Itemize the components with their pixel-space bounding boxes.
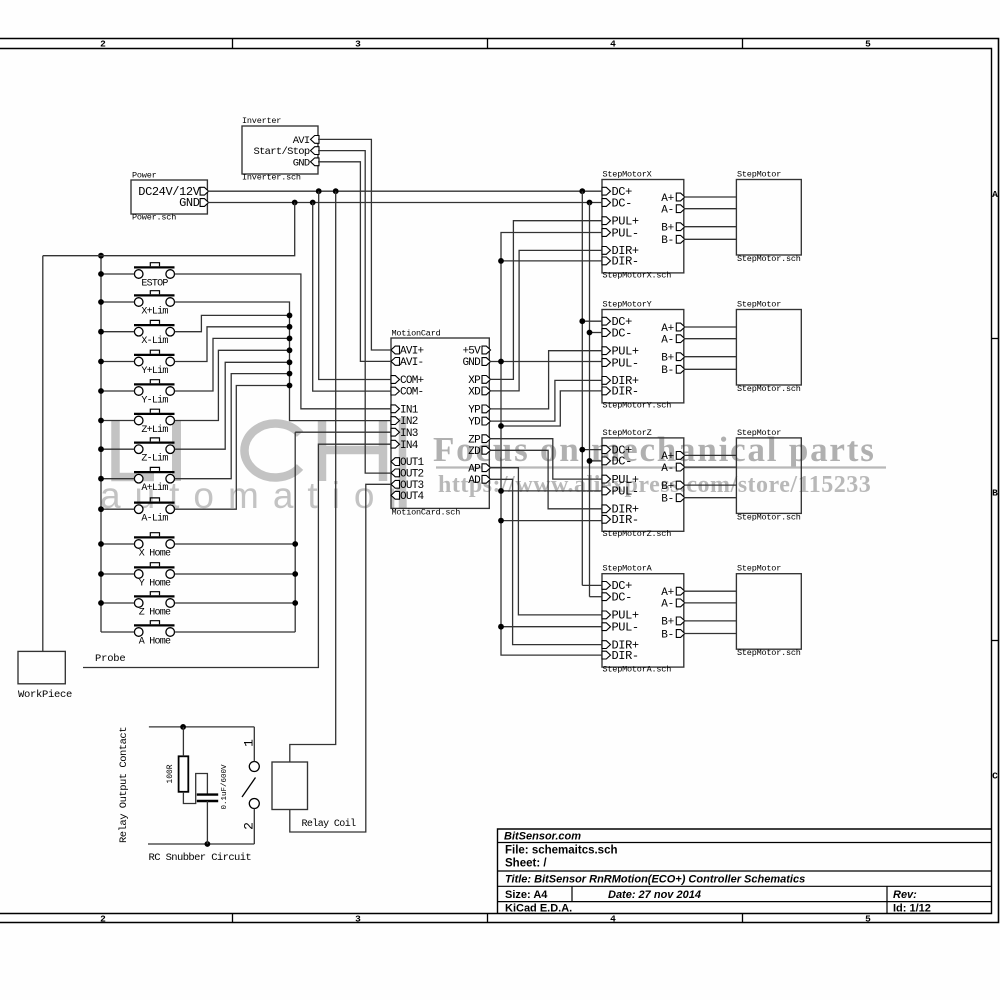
svg-text:A+: A+	[661, 451, 674, 463]
wire YD to Y DIR+	[489, 380, 602, 421]
svg-text:PUL-: PUL-	[612, 226, 639, 240]
svg-text:C: C	[992, 771, 998, 782]
svg-text:AP: AP	[468, 463, 481, 475]
switch A Home	[134, 624, 175, 626]
pin OUT4	[391, 491, 400, 499]
svg-text:Id: 1/12: Id: 1/12	[893, 903, 931, 915]
wire Y Home to home bus	[175, 573, 296, 575]
svg-text:+5V: +5V	[462, 346, 481, 358]
svg-text:DIR-: DIR-	[612, 513, 639, 527]
junction bus Z+Lim	[98, 418, 104, 424]
pin IN4	[391, 440, 400, 448]
svg-text:A+: A+	[661, 587, 674, 599]
svg-text:A Home: A Home	[139, 637, 171, 648]
switch Y-Lim	[134, 383, 175, 385]
junction	[579, 447, 585, 453]
pin A- X	[676, 205, 685, 213]
svg-text:StepMotorY: StepMotorY	[603, 300, 652, 310]
svg-text:OUT1: OUT1	[400, 457, 425, 469]
svg-text:A+: A+	[661, 193, 674, 205]
junction limit bus X-Lim	[287, 313, 293, 319]
svg-text:IN1: IN1	[400, 404, 419, 416]
pin AP	[482, 464, 491, 472]
wire to WorkPiece	[42, 256, 44, 652]
pin DIR- Z	[602, 515, 611, 523]
wire A A- to motor	[684, 602, 737, 604]
wire ZD to Z DIR+	[489, 450, 602, 509]
svg-text:B-: B-	[661, 494, 674, 506]
svg-text:DIR-: DIR-	[612, 255, 639, 269]
svg-text:Y Home: Y Home	[139, 579, 171, 590]
pin XP	[482, 376, 491, 384]
wire capacitor bottom lead	[206, 801, 208, 844]
svg-text:YD: YD	[468, 417, 481, 429]
pin DIR- X	[602, 257, 611, 265]
junction limit bus Z+Lim	[287, 347, 293, 353]
junction	[498, 518, 504, 524]
wire Z DIR- to common bus	[501, 520, 602, 522]
wire DC24V to relay coil	[290, 191, 336, 762]
svg-text:automation: automation	[100, 475, 423, 516]
pin PUL- Z	[602, 487, 611, 495]
svg-text:Z-Lim: Z-Lim	[141, 453, 168, 465]
junction bus Z Home	[98, 600, 104, 606]
svg-text:A-: A-	[661, 463, 674, 475]
svg-text:StepMotorZ: StepMotorZ	[603, 428, 652, 438]
wire bus to Z+Lim	[101, 420, 134, 422]
pin COM+	[391, 376, 400, 384]
wire Z A+ to motor	[684, 454, 737, 456]
svg-text:StepMotorZ.sch: StepMotorZ.sch	[603, 529, 672, 539]
wire Z A- to motor	[684, 466, 737, 468]
wire Y B+ to motor	[684, 356, 737, 358]
svg-text:AD: AD	[468, 475, 481, 487]
sheet StepMotorA	[602, 574, 684, 667]
svg-text:StepMotorA: StepMotorA	[603, 564, 653, 574]
wire DC- stub Z	[590, 460, 603, 462]
border tick bottom	[232, 914, 234, 923]
sheet StepMotor motor Z	[736, 438, 801, 514]
pin DIR+ A	[602, 641, 611, 649]
sheet StepMotor motor X	[736, 180, 801, 256]
svg-text:B: B	[992, 488, 998, 499]
svg-text:Title: BitSensor RnRMotion(ECO: Title: BitSensor RnRMotion(ECO+) Control…	[505, 873, 805, 885]
svg-text:Power.sch: Power.sch	[132, 213, 176, 223]
pin A+ X	[676, 193, 685, 201]
switch Z-Lim	[134, 442, 175, 444]
sheet StepMotorX	[602, 180, 684, 273]
pin COM-	[391, 387, 400, 395]
svg-text:XD: XD	[468, 387, 481, 399]
svg-text:A-: A-	[661, 599, 674, 611]
svg-text:StepMotor.sch: StepMotor.sch	[737, 384, 801, 394]
pin DC24V/12V	[200, 187, 209, 195]
svg-text:A+Lim: A+Lim	[141, 482, 168, 494]
junction	[498, 488, 504, 494]
pin YD	[482, 417, 491, 425]
wire X-Lim to limit bus	[175, 315, 290, 331]
pin DC+ Y	[602, 317, 611, 325]
svg-text:StepMotor: StepMotor	[737, 564, 781, 574]
svg-text:StepMotorA.sch: StepMotorA.sch	[603, 665, 672, 675]
wire A PUL- to common bus	[501, 626, 602, 628]
svg-text:ZD: ZD	[468, 446, 481, 458]
pin ZD	[482, 446, 491, 454]
junction limit bus A+Lim	[287, 371, 293, 377]
pin B- Z	[676, 494, 685, 502]
wire switch supply bus	[100, 256, 102, 632]
pin OUT2	[391, 469, 400, 477]
wire X DIR- to common bus	[501, 260, 602, 262]
wire contact bottom	[148, 843, 254, 845]
svg-text:StepMotor.sch: StepMotor.sch	[737, 512, 801, 522]
junction bus X+Lim	[98, 299, 104, 305]
wire AVI to AVI+	[318, 139, 391, 350]
title block row line 3	[498, 885, 992, 887]
junction resistor top	[180, 724, 186, 730]
pin A- Y	[676, 335, 685, 343]
wire AP to A PUL+	[489, 468, 602, 615]
svg-text:B-: B-	[661, 235, 674, 247]
wire resistor to capacitor	[183, 774, 207, 804]
wire DC+ stub Z	[582, 449, 602, 451]
svg-text:WorkPiece: WorkPiece	[18, 689, 72, 701]
svg-text:Relay Coil: Relay Coil	[302, 818, 357, 830]
wire DC- stub A	[590, 596, 603, 598]
border tick top	[742, 39, 744, 49]
svg-text:Start/Stop: Start/Stop	[253, 146, 309, 158]
junction home bus Y Home	[292, 571, 298, 577]
junction	[579, 188, 585, 194]
pin A+ A	[676, 587, 685, 595]
junction limit bus Y+Lim	[287, 324, 293, 330]
wire Y DIR- to common bus	[501, 391, 602, 426]
junction home bus Z Home	[292, 600, 298, 606]
wire bus to X+Lim	[101, 301, 134, 303]
svg-text:Probe: Probe	[95, 653, 126, 665]
svg-text:A-Lim: A-Lim	[141, 513, 168, 525]
wire bus to Y Home	[101, 573, 134, 575]
svg-text:Inverter: Inverter	[242, 116, 281, 126]
title block divider rev	[886, 886, 888, 914]
svg-text:StepMotor: StepMotor	[737, 170, 781, 180]
junction bus Y+Lim	[98, 359, 104, 365]
title block divider date	[571, 886, 573, 901]
svg-text:4: 4	[610, 39, 616, 50]
svg-text:File: schemaitcs.sch: File: schemaitcs.sch	[505, 845, 618, 857]
pin IN3	[391, 428, 400, 436]
svg-text:PUL-: PUL-	[612, 621, 639, 635]
pin DIR+ Z	[602, 505, 611, 513]
svg-text:2: 2	[100, 914, 106, 925]
junction bus Z-Lim	[98, 446, 104, 452]
svg-text:https://www.aliexpress.com/sto: https://www.aliexpress.com/store/115233	[438, 472, 871, 498]
svg-text:GND: GND	[293, 157, 310, 169]
svg-text:DIR-: DIR-	[612, 385, 639, 399]
wire Y B- to motor	[684, 368, 737, 370]
svg-text:5: 5	[865, 39, 871, 50]
svg-text:DC-: DC-	[612, 455, 632, 469]
wire bus to X Home	[101, 543, 134, 545]
svg-text:MotionCard.sch: MotionCard.sch	[392, 508, 461, 518]
switch X-Lim	[134, 324, 175, 326]
svg-text:Rev:: Rev:	[893, 889, 917, 901]
svg-text:StepMotorY.sch: StepMotorY.sch	[603, 401, 672, 411]
svg-text:Y+Lim: Y+Lim	[141, 365, 168, 377]
junction bus A-Lim	[98, 506, 104, 512]
svg-text:3: 3	[355, 914, 361, 925]
pin GND	[200, 199, 209, 207]
svg-text:StepMotor.sch: StepMotor.sch	[737, 254, 801, 264]
svg-text:Z Home: Z Home	[139, 608, 171, 619]
pin B+ X	[676, 223, 685, 231]
pin DIR+ Y	[602, 377, 611, 385]
pin PUL+ Y	[602, 347, 611, 355]
junction	[587, 458, 593, 464]
svg-text:StepMotorX.sch: StepMotorX.sch	[603, 271, 672, 281]
border tick bottom	[742, 914, 744, 923]
wire X Home to home bus	[175, 543, 296, 545]
pin GND inverter	[311, 158, 320, 166]
pin B- X	[676, 235, 685, 243]
svg-text:StepMotor: StepMotor	[737, 300, 781, 310]
svg-text:AVI+: AVI+	[400, 346, 424, 358]
wire A-Lim to limit bus	[175, 386, 290, 510]
wire Z B+ to motor	[684, 484, 737, 486]
wire Start/Stop to OUT2	[318, 151, 391, 474]
wire Y A- to motor	[684, 338, 737, 340]
junction home bus X Home	[292, 541, 298, 547]
watermark logo letter C	[244, 424, 300, 478]
switch ESTOP	[134, 266, 175, 268]
junction	[292, 200, 298, 206]
wire resistor top lead	[182, 727, 184, 756]
wire limit bus to IN2	[175, 302, 391, 421]
svg-text:X+Lim: X+Lim	[141, 306, 168, 318]
svg-text:DC-: DC-	[612, 326, 632, 340]
pin DC- X	[602, 199, 611, 207]
svg-text:A-: A-	[661, 205, 674, 217]
switch Y Home	[134, 566, 175, 568]
pin DC+ A	[602, 582, 611, 590]
wire Y+Lim to limit bus	[175, 327, 290, 362]
wire Z PUL- to common bus	[501, 490, 602, 492]
wire DC24V to COM+	[319, 191, 391, 379]
wire bus to ESTOP	[101, 273, 134, 275]
sheet StepMotorZ	[602, 438, 684, 531]
wire contact 1 lead	[253, 727, 255, 762]
wire XD to X DIR+	[489, 250, 602, 391]
relay contact pole 1	[249, 762, 259, 772]
junction	[498, 423, 504, 429]
svg-text:Relay Output Contact: Relay Output Contact	[118, 727, 130, 843]
sheet Inverter	[242, 126, 318, 174]
switch Y+Lim	[134, 354, 175, 356]
wire bus to A+Lim	[101, 478, 134, 480]
wire home bus to IN3	[295, 431, 391, 433]
svg-text:PUL-: PUL-	[612, 356, 639, 370]
wire GND to COM-	[313, 203, 391, 392]
junction bus ESTOP	[98, 271, 104, 277]
svg-text:OUT2: OUT2	[400, 469, 424, 481]
wire inverter GND to AVI-	[318, 162, 391, 362]
junction	[579, 318, 585, 324]
junction	[498, 359, 504, 365]
switch A+Lim	[134, 471, 175, 473]
wire ZP to Z PUL+	[489, 439, 602, 479]
wire bus to Y-Lim	[101, 390, 134, 392]
svg-text:DC-: DC-	[612, 196, 632, 210]
wire DC- bus	[589, 203, 591, 597]
watermark underline	[436, 466, 886, 468]
wire GND to Y PUL-	[489, 361, 602, 363]
svg-text:KiCad E.D.A.: KiCad E.D.A.	[505, 903, 572, 915]
sheet MotionCard	[391, 338, 489, 508]
svg-text:2: 2	[242, 822, 257, 830]
svg-text:IN3: IN3	[400, 428, 418, 440]
junction bus X-Lim	[98, 329, 104, 335]
svg-text:StepMotor: StepMotor	[737, 428, 781, 438]
svg-text:Inverter.sch: Inverter.sch	[242, 173, 301, 183]
svg-text:X Home: X Home	[139, 549, 171, 560]
pin DC- Y	[602, 329, 611, 337]
border tick right	[992, 338, 999, 340]
svg-text:GND: GND	[462, 357, 481, 369]
switch X+Lim	[134, 294, 175, 296]
svg-text:AVI-: AVI-	[400, 357, 423, 369]
svg-text:StepMotorX: StepMotorX	[603, 170, 652, 180]
pin Start/Stop	[311, 147, 320, 155]
pin B+ A	[676, 617, 685, 625]
wire Y-Lim to limit bus	[175, 338, 290, 391]
junction	[587, 200, 593, 206]
junction limit bus Y-Lim	[287, 336, 293, 342]
wire GND to switch bus	[43, 203, 295, 256]
pin IN1	[391, 405, 400, 413]
sheet StepMotorY	[602, 310, 684, 403]
svg-text:Z+Lim: Z+Lim	[141, 424, 168, 436]
wire bus to A-Lim	[101, 508, 134, 510]
wire contact top	[149, 726, 254, 728]
junction bus X Home	[98, 541, 104, 547]
wire bus to A Home	[101, 631, 134, 633]
svg-text:Y-Lim: Y-Lim	[141, 395, 168, 407]
svg-text:DIR-: DIR-	[612, 649, 639, 663]
wire DC24V rail	[207, 190, 602, 192]
svg-text:X-Lim: X-Lim	[141, 335, 168, 347]
wire OUT3 to relay coil	[290, 484, 391, 832]
wire Y A+ to motor	[684, 326, 737, 328]
pin PUL+ A	[602, 611, 611, 619]
pin OUT3	[391, 480, 400, 488]
pin DIR- Y	[602, 387, 611, 395]
pin A+ Y	[676, 323, 685, 331]
wire bus to X-Lim	[101, 331, 134, 333]
svg-text:0.1uF/600V: 0.1uF/600V	[221, 764, 229, 810]
watermark logo letter H	[322, 420, 383, 481]
svg-text:COM-: COM-	[400, 387, 423, 399]
wire X A+ to motor	[684, 196, 737, 198]
svg-text:2: 2	[100, 39, 106, 50]
svg-text:Date: 27 nov 2014: Date: 27 nov 2014	[608, 889, 701, 901]
svg-text:MotionCard: MotionCard	[392, 329, 441, 339]
svg-text:XP: XP	[468, 375, 481, 387]
title block row line 4	[498, 901, 992, 903]
border tick right	[992, 640, 999, 642]
svg-text:StepMotor.sch: StepMotor.sch	[737, 648, 801, 658]
pin AVI+	[391, 346, 400, 354]
svg-text:ZP: ZP	[468, 434, 481, 446]
wire bus to Z Home	[101, 602, 134, 604]
pin A- A	[676, 599, 685, 607]
svg-text:B+: B+	[661, 481, 674, 493]
svg-text:BitSensor.com: BitSensor.com	[504, 831, 581, 843]
pin AVI	[311, 136, 320, 144]
title block row line 2	[498, 870, 992, 872]
wire AD to A DIR+	[489, 479, 602, 644]
pin XD	[482, 387, 491, 395]
wire Z-Lim to limit bus	[175, 362, 290, 449]
pin DC+ Z	[602, 446, 611, 454]
wire DC+ stub A	[582, 584, 602, 586]
sheet Power	[131, 180, 207, 214]
component Relay Coil	[272, 762, 308, 810]
junction	[587, 330, 593, 336]
svg-text:OUT4: OUT4	[400, 491, 425, 503]
relay contact lever	[242, 778, 256, 798]
pin PUL- Y	[602, 359, 611, 367]
pin PUL+ Z	[602, 475, 611, 483]
wire bus to Y+Lim	[101, 361, 134, 363]
svg-text:Focus on mechanical parts: Focus on mechanical parts	[433, 430, 876, 469]
svg-text:4: 4	[610, 914, 616, 925]
wire ESTOP to IN1	[175, 274, 391, 409]
wire X B- to motor	[684, 238, 737, 240]
pin PUL- A	[602, 623, 611, 631]
pin B+ Y	[676, 353, 685, 361]
svg-text:PUL-: PUL-	[612, 485, 639, 499]
svg-text:100R: 100R	[166, 764, 175, 783]
svg-text:ESTOP: ESTOP	[141, 279, 168, 290]
junction	[498, 624, 504, 630]
wire XP to X PUL+	[489, 221, 602, 380]
svg-text:IN2: IN2	[400, 416, 418, 428]
wire A Home to home bus	[175, 631, 296, 633]
pin DIR- A	[602, 651, 611, 659]
svg-text:B+: B+	[661, 617, 674, 629]
wire contact 2 lead	[253, 809, 255, 845]
pin DC- A	[602, 593, 611, 601]
svg-text:B-: B-	[661, 365, 674, 377]
watermark logo letter I	[172, 420, 181, 481]
pin B- Y	[676, 365, 685, 373]
junction limit bus A-Lim	[287, 383, 293, 389]
wire GND rail	[207, 202, 602, 204]
title block frame	[498, 829, 992, 914]
wire DC- stub Y	[590, 332, 603, 334]
switch A-Lim	[134, 502, 175, 504]
border tick bottom	[487, 914, 489, 923]
svg-text:GND: GND	[179, 196, 200, 210]
junction limit bus Z-Lim	[287, 359, 293, 365]
sheet StepMotor motor Y	[736, 310, 801, 386]
watermark logo letter L	[116, 420, 155, 477]
pin DC- Z	[602, 457, 611, 465]
junction bus top	[98, 253, 104, 259]
pin ZP	[482, 435, 491, 443]
pin IN2	[391, 417, 400, 425]
svg-text:A: A	[992, 189, 998, 200]
